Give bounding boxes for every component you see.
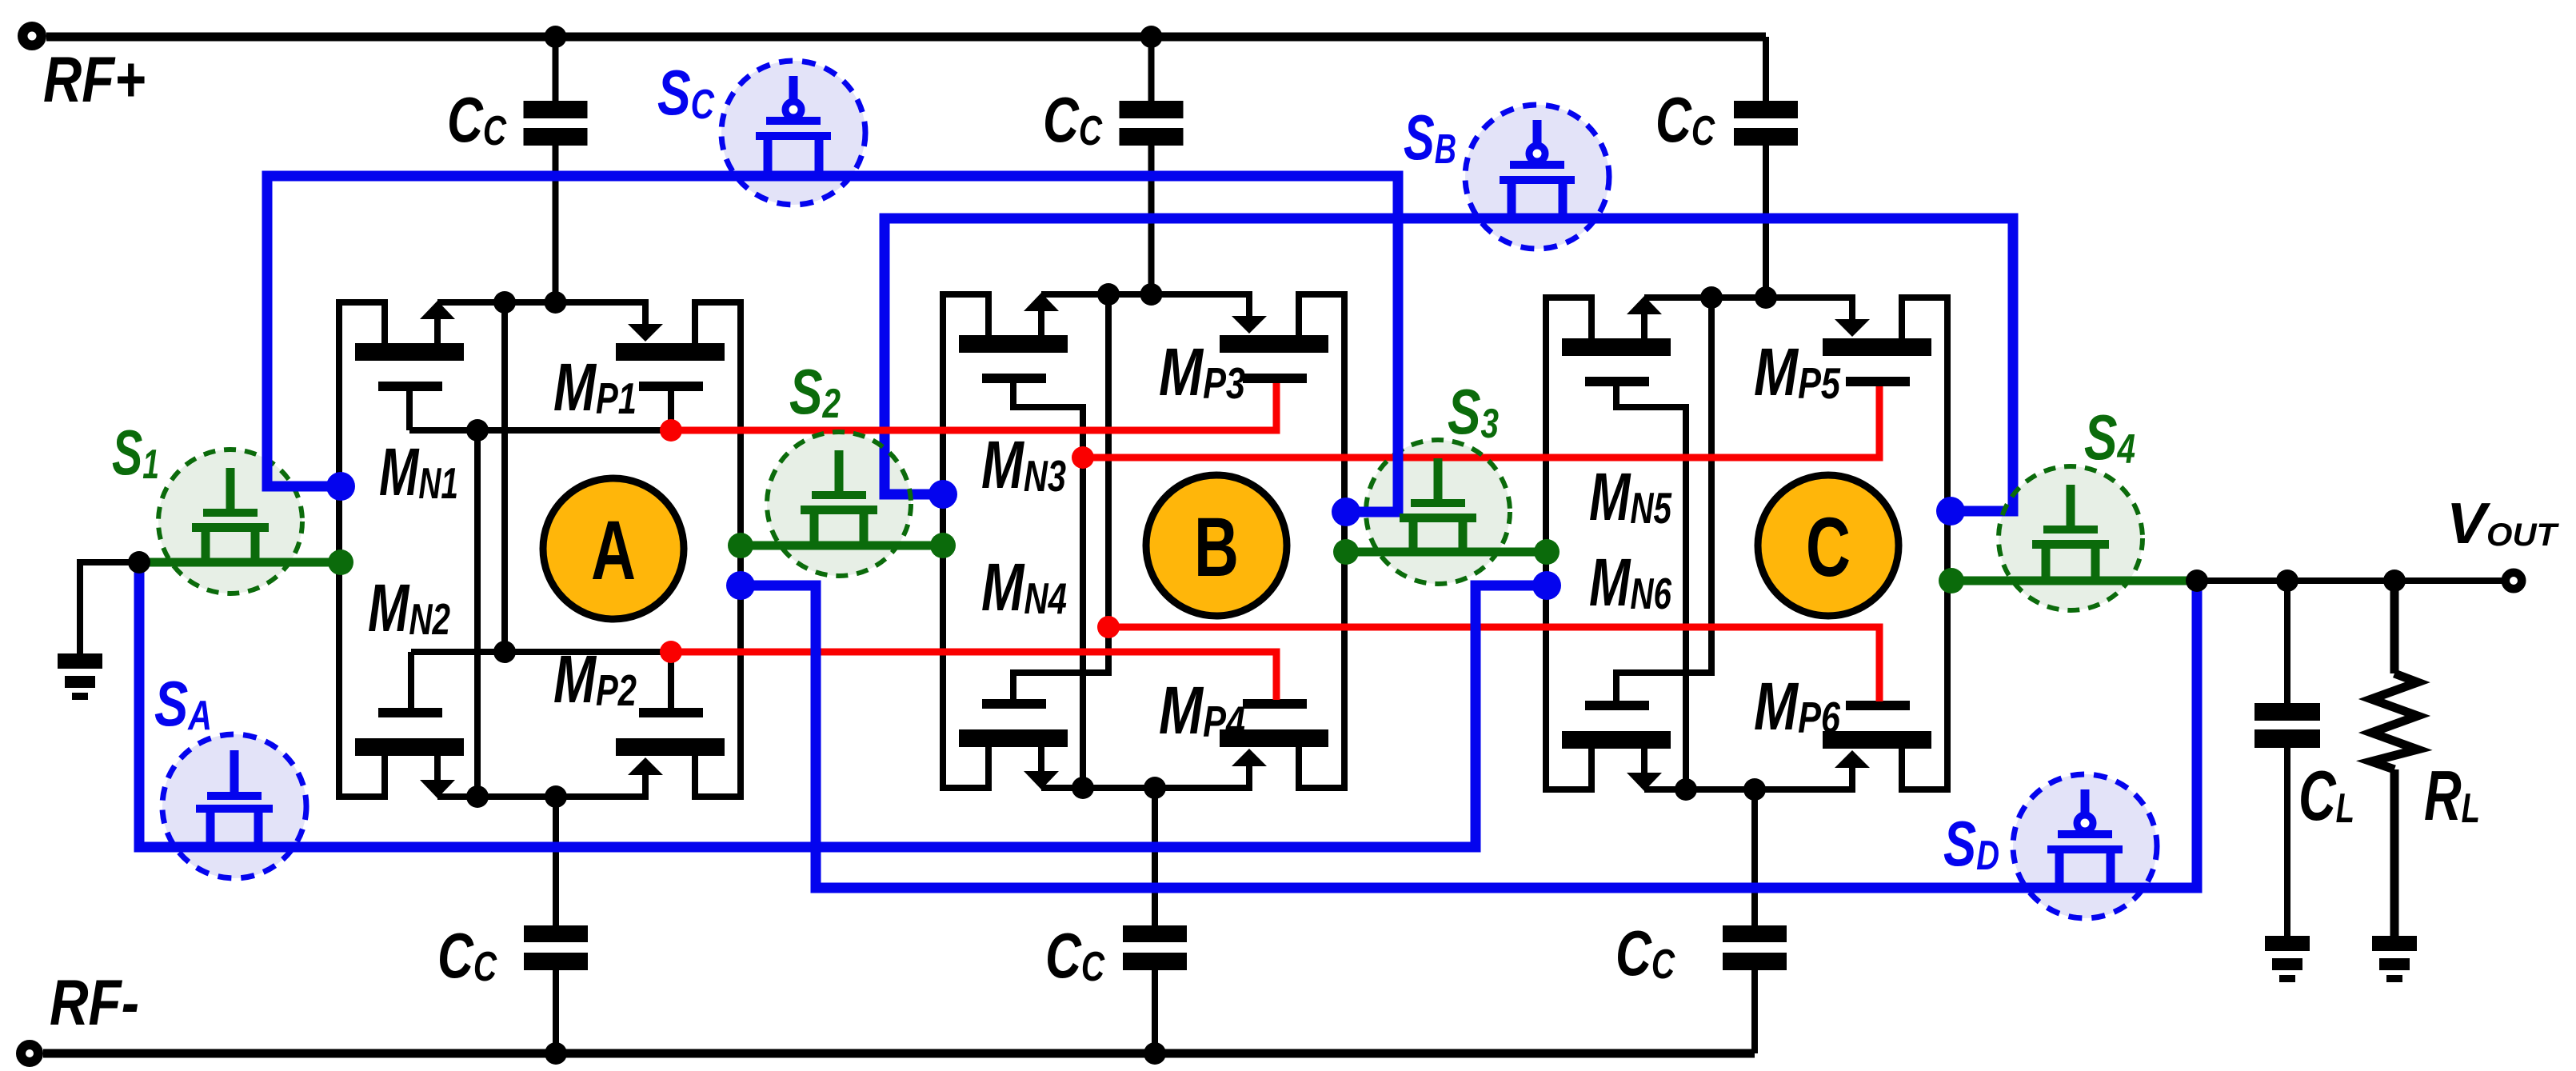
svg-text:A: A <box>591 504 636 597</box>
svg-text:RF-: RF- <box>50 967 139 1039</box>
svg-text:C: C <box>1806 501 1851 594</box>
svg-text:RF+: RF+ <box>43 44 146 116</box>
svg-text:B: B <box>1194 501 1239 594</box>
